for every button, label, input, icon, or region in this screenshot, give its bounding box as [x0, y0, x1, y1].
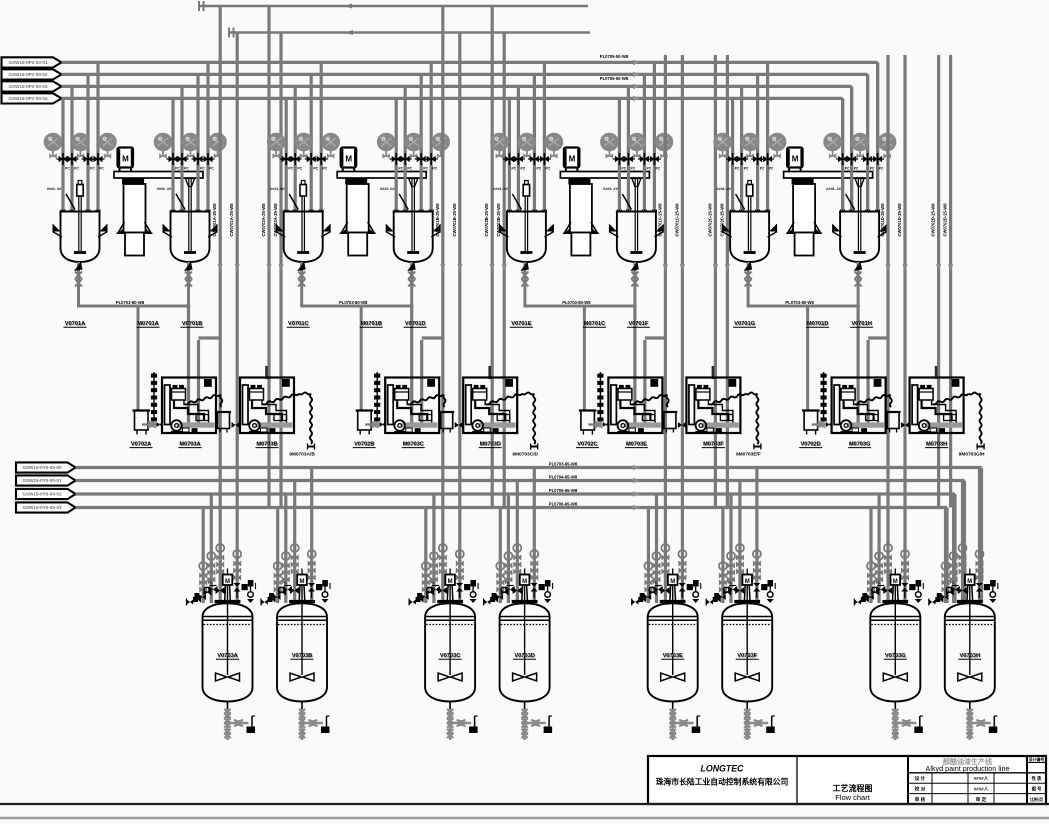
hose 1 [408, 395, 443, 405]
svg-text:V0703C: V0703C [440, 653, 461, 659]
pipe header H1 top [198, 5, 588, 7]
svg-text:V0701E: V0701E [511, 321, 531, 327]
svg-text:V0703G: V0703G [885, 653, 906, 659]
svg-text:M0701D: M0701D [807, 321, 829, 327]
valve HC [232, 422, 236, 428]
svg-text:PL0705-50-W8: PL0705-50-W8 [600, 54, 629, 59]
svg-text:GSW15-0P2-00-03: GSW15-0P2-00-03 [8, 84, 48, 89]
svg-text:####人: ####人 [974, 786, 989, 792]
tag arrow T3 [2, 81, 62, 91]
svg-text:FC: FC [876, 581, 881, 585]
svg-text:M: M [300, 579, 305, 585]
nozzle valve cluster tank V0703E [654, 586, 659, 593]
pipe CW CW0702B-25-W8 [491, 6, 494, 508]
valve HC [455, 422, 459, 428]
svg-text:FC: FC [282, 581, 287, 585]
pipe outlet manifold [77, 305, 190, 308]
wire corner drop line 2 [866, 74, 869, 211]
svg-text:PL0703-80-W8: PL0703-80-W8 [562, 300, 591, 305]
svg-text:PC: PC [99, 167, 104, 171]
svg-text:GSW15-0Y0-00-03: GSW15-0Y0-00-03 [22, 505, 62, 510]
svg-text:CW0701B-25-W8: CW0701B-25-W8 [435, 203, 440, 237]
pipe reactor outlet down [633, 306, 636, 423]
svg-text:珠海市长陆工业自动控制系统有限公司: 珠海市长陆工业自动控制系统有限公司 [656, 777, 789, 787]
svg-text:V0703H: V0703H [960, 653, 981, 659]
svg-text:PL0704-65-W8: PL0704-65-W8 [549, 474, 578, 479]
tag arrow M4 [16, 502, 76, 512]
svg-text:Alkyd paint production line: Alkyd paint production line [926, 764, 1010, 773]
tank vessel V0703C [425, 603, 475, 617]
svg-text:M0703G: M0703G [849, 442, 870, 448]
svg-text:PC: PC [74, 167, 79, 171]
svg-text:###L ##: ###L ## [493, 186, 508, 191]
reactor V0701B [186, 179, 195, 187]
svg-text:比例/页: 比例/页 [1030, 796, 1043, 802]
tank vessel V0703H [945, 603, 995, 617]
svg-text:M: M [122, 155, 129, 164]
svg-text:PC: PC [175, 167, 180, 171]
svg-text:###L ##: ###L ## [270, 186, 285, 191]
pipe tank to skid [588, 423, 608, 425]
svg-text:PC: PC [398, 167, 403, 171]
svg-text:###L ##: ###L ## [47, 186, 62, 191]
svg-text:GSW15-0P2-00-04: GSW15-0P2-00-04 [8, 96, 48, 101]
svg-text:审 核: 审 核 [915, 796, 926, 803]
svg-text:V0703E: V0703E [663, 653, 683, 659]
pipe outlet manifold [300, 305, 413, 308]
wire corner drop [945, 508, 948, 604]
pipe outlet manifold [523, 305, 636, 308]
svg-text:FC: FC [430, 581, 435, 585]
svg-text:####人: ####人 [974, 775, 989, 781]
svg-text:PC: PC [407, 167, 412, 171]
pipe mid header 1 [76, 466, 982, 469]
svg-text:GSW15-0P2-00-02: GSW15-0P2-00-02 [8, 72, 48, 77]
title block [648, 756, 1046, 804]
reactor V0701A [61, 98, 64, 211]
svg-text:PC: PC [512, 167, 517, 171]
svg-text:PC: PC [656, 167, 661, 171]
svg-text:PL0703-80-W8: PL0703-80-W8 [116, 300, 145, 305]
svg-text:PC: PC [744, 167, 749, 171]
svg-text:PC: PC [870, 167, 875, 171]
svg-text:V0701H: V0701H [851, 321, 872, 327]
svg-text:###L ##: ###L ## [716, 186, 731, 191]
bottom outlet tank V0703E [672, 702, 674, 710]
svg-text:M: M [225, 579, 230, 585]
svg-text:M: M [569, 155, 576, 164]
pump skid M0703E [608, 378, 662, 434]
pipe tank to skid [812, 423, 832, 425]
svg-text:CW0701A-25-W8: CW0701A-25-W8 [229, 203, 234, 237]
svg-text:PC: PC [322, 167, 327, 171]
pipe CW CW0701B-25-W8 [441, 6, 444, 603]
svg-text:FC: FC [505, 581, 510, 585]
valve HC [678, 422, 682, 428]
svg-text:PC: PC [209, 167, 214, 171]
agitator motor tank V0703E [672, 569, 674, 575]
svg-text:PC: PC [546, 167, 551, 171]
svg-text:PC: PC [90, 167, 95, 171]
pipe CW CW0701C-25-W8 [664, 55, 667, 603]
pipe CW CW0702C-25-W8 [714, 55, 717, 508]
small tank V0702C [579, 409, 597, 411]
svg-text:GSW15-0Y0-00-01: GSW15-0Y0-00-01 [22, 478, 62, 483]
fitting strip [599, 372, 601, 425]
svg-text:V0702B: V0702B [354, 442, 374, 448]
mid small tank [216, 411, 231, 413]
bottom outlet tank V0703B [301, 702, 303, 710]
svg-text:CW0702B-25-W8: CW0702B-25-W8 [484, 203, 489, 237]
agitator motor tank V0703H [969, 569, 971, 575]
nozzle valve cluster tank V0703G [876, 586, 881, 593]
svg-text:V0701G: V0701G [734, 321, 755, 327]
nozzle valve cluster tank V0703F [728, 586, 733, 593]
bottom outlet tank V0703C [449, 702, 451, 710]
hose 1 [855, 395, 890, 405]
fitting strip [153, 372, 155, 425]
svg-text:FC: FC [208, 581, 213, 585]
svg-text:PC: PC [854, 167, 859, 171]
svg-text:M: M [967, 579, 972, 585]
pipe tank to skid [365, 423, 385, 425]
reactor V0701H [855, 179, 864, 187]
pipe CW CW0702D-25-W8 [937, 55, 940, 508]
bottom outlet tank V0703G [894, 702, 896, 710]
tag arrow T1 [2, 57, 62, 67]
pipe header H2 top [228, 31, 590, 33]
svg-text:V0702A: V0702A [131, 442, 151, 448]
feed pipes tank V0703A [202, 508, 205, 604]
svg-text:M0703C: M0703C [403, 442, 424, 448]
agitator motor tank V0703A [227, 569, 229, 575]
pump skid M0703D [463, 378, 517, 434]
tag arrow M2 [16, 475, 76, 485]
svg-text:PC: PC [200, 167, 205, 171]
tank vessel V0703G [870, 603, 920, 617]
agitator motor tank V0703B [301, 569, 303, 575]
svg-text:V0703D: V0703D [514, 653, 535, 659]
svg-text:CW0701A-25-W8: CW0701A-25-W8 [212, 203, 217, 237]
svg-text:V0702D: V0702D [800, 442, 820, 448]
pipe outlet manifold [747, 305, 860, 308]
svg-text:审 定: 审 定 [976, 796, 987, 803]
svg-text:M: M [745, 579, 750, 585]
wire corner drop [963, 481, 966, 604]
svg-text:图 号: 图 号 [1032, 786, 1042, 793]
hose 2 [486, 394, 522, 405]
svg-text:GSW15-0P2-00-01: GSW15-0P2-00-01 [8, 60, 48, 65]
svg-text:CW0701C-25-W8: CW0701C-25-W8 [674, 203, 679, 237]
svg-text:V0703A: V0703A [217, 653, 238, 659]
pipe tank to skid [142, 423, 162, 425]
svg-text:V0703B: V0703B [292, 653, 313, 659]
border line gray [0, 817, 1049, 820]
fitting strip [823, 372, 825, 425]
feed pipes tank V0703D [499, 508, 502, 604]
tank vessel V0703A [203, 603, 253, 617]
svg-text:PC: PC [423, 167, 428, 171]
svg-text:PC: PC [297, 167, 302, 171]
svg-text:V0701D: V0701D [405, 321, 426, 327]
svg-text:M0703A: M0703A [179, 442, 200, 448]
pipe reactor outlet down [410, 306, 413, 423]
svg-text:PC: PC [288, 167, 293, 171]
svg-text:V0701F: V0701F [628, 321, 648, 327]
svg-text:PL0706-65-W8: PL0706-65-W8 [549, 501, 578, 506]
svg-text:M: M [345, 155, 352, 164]
pump skid M0703C [385, 378, 439, 434]
disperser M0701B [341, 148, 357, 168]
svg-text:###L ##: ###L ## [380, 186, 395, 191]
wire corner drop line 4 [841, 98, 844, 211]
feed pipes tank V0703C [424, 508, 427, 604]
svg-text:Flow chart: Flow chart [835, 793, 871, 802]
svg-text:PC: PC [622, 167, 627, 171]
svg-text:FC: FC [950, 581, 955, 585]
svg-text:V0701B: V0701B [182, 321, 203, 327]
tag arrow M1 [16, 462, 76, 472]
svg-text:PC: PC [735, 167, 740, 171]
svg-text:PL0703-65-W8: PL0703-65-W8 [549, 461, 578, 466]
svg-text:PC: PC [184, 167, 189, 171]
pump skid M0703G [832, 378, 886, 434]
svg-text:PC: PC [879, 167, 884, 171]
disperser M0701C [564, 148, 580, 168]
pump skid M0703A [162, 378, 216, 434]
svg-text:PC: PC [769, 167, 774, 171]
reactor V0701G [731, 98, 734, 211]
svg-text:CW0702D-25-W8: CW0702D-25-W8 [931, 203, 936, 237]
agitator motor tank V0703F [746, 569, 748, 575]
feed pipes tank V0703E [647, 508, 650, 604]
svg-text:PL0703-80-W8: PL0703-80-W8 [339, 300, 368, 305]
svg-text:PC: PC [845, 167, 850, 171]
wire drops from H1/H2 [219, 6, 222, 33]
tank vessel V0703F [722, 603, 772, 617]
reactor V0701D [409, 179, 418, 187]
small tank V0702A [133, 409, 151, 411]
svg-text:FC: FC [728, 581, 733, 585]
svg-text:PC: PC [537, 167, 542, 171]
valve HC [901, 422, 905, 428]
svg-text:9M0703A/B: 9M0703A/B [289, 452, 315, 458]
pipe mid header 2 [76, 479, 965, 482]
pipe main line 1 [62, 61, 878, 64]
svg-text:CW0701B-25-W8: CW0701B-25-W8 [452, 203, 457, 237]
pipe CW CW0702A-25-W8 [267, 6, 270, 508]
svg-text:PC: PC [432, 167, 437, 171]
svg-text:PL0703-80-W8: PL0703-80-W8 [785, 300, 814, 305]
bottom outlet tank V0703D [524, 702, 526, 710]
wire corner drop [953, 494, 956, 603]
svg-text:M: M [448, 579, 453, 585]
tank vessel V0703E [648, 603, 698, 617]
svg-text:M0703B: M0703B [256, 442, 277, 448]
pipe main line 4 [62, 97, 843, 100]
svg-text:###L ##: ###L ## [157, 186, 172, 191]
nozzle valve cluster tank V0703C [431, 586, 436, 593]
feed pipes tank V0703G [869, 508, 872, 604]
svg-text:M: M [893, 579, 898, 585]
tank vessel V0703D [500, 603, 550, 617]
svg-text:M0703D: M0703D [480, 442, 501, 448]
svg-text:M0701A: M0701A [137, 321, 159, 327]
pipe mid header 3 [76, 492, 956, 495]
svg-text:设 计: 设 计 [915, 775, 926, 782]
svg-text:FC: FC [653, 581, 658, 585]
svg-text:设计编号: 设计编号 [1029, 757, 1045, 762]
svg-text:LONGTEC: LONGTEC [700, 764, 744, 774]
agitator motor tank V0703C [449, 569, 451, 575]
tank vessel V0703B [277, 603, 327, 617]
small tank V0702B [356, 409, 374, 411]
mid small tank [662, 411, 677, 413]
svg-text:V0701A: V0701A [65, 321, 86, 327]
reactor V0701F [632, 179, 641, 187]
svg-text:性 质: 性 质 [1032, 775, 1042, 782]
svg-text:9M0703G/H: 9M0703G/H [959, 452, 985, 458]
reactor V0701E [508, 98, 511, 211]
svg-text:M0703H: M0703H [926, 442, 947, 448]
wire corner drop line 1 [876, 62, 879, 211]
svg-text:V0701C: V0701C [288, 321, 309, 327]
pipe main line 2 [62, 73, 868, 76]
svg-text:PC: PC [313, 167, 318, 171]
svg-text:CW0702A-25-W8: CW0702A-25-W8 [261, 203, 266, 237]
svg-text:PC: PC [631, 167, 636, 171]
pipe CW CW0701A-25-W8 [219, 6, 222, 603]
fitting strip [376, 372, 378, 425]
svg-text:PC: PC [760, 167, 765, 171]
svg-text:CW0701D-25-W8: CW0701D-25-W8 [897, 203, 902, 237]
border line black [0, 803, 1049, 805]
svg-text:M: M [522, 579, 527, 585]
hose 1 [185, 395, 220, 405]
svg-text:9M0703E/F: 9M0703E/F [736, 452, 761, 458]
svg-text:M0701B: M0701B [360, 321, 382, 327]
nozzle valve cluster tank V0703D [506, 586, 511, 593]
svg-text:###L ##: ###L ## [826, 186, 841, 191]
right info column [1027, 762, 1046, 764]
disperser M0701D [787, 148, 803, 168]
wire corner drop [980, 468, 983, 604]
nozzle valve cluster tank V0703A [209, 586, 214, 593]
hose 1 [631, 395, 666, 405]
pump skid M0703F [686, 378, 740, 434]
pipe main line 3 [62, 85, 852, 88]
nozzle valve cluster tank V0703B [283, 586, 288, 593]
bottom outlet tank V0703H [969, 702, 971, 710]
svg-text:PC: PC [65, 167, 70, 171]
mid small tank [886, 411, 901, 413]
bottom outlet tank V0703F [746, 702, 748, 710]
tag arrow T2 [2, 69, 62, 79]
svg-text:PC: PC [521, 167, 526, 171]
bottom outlet tank V0703A [227, 702, 229, 710]
disperser M0701A [118, 148, 134, 168]
feed pipes tank V0703F [721, 508, 724, 604]
feed pipes tank V0703B [276, 508, 279, 604]
pump skid M0703H [910, 378, 964, 434]
svg-text:V0702C: V0702C [577, 442, 597, 448]
svg-text:GSW15-0Y0-00-00: GSW15-0Y0-00-00 [22, 465, 62, 470]
svg-text:校 对: 校 对 [915, 786, 926, 793]
agitator motor tank V0703G [894, 569, 896, 575]
svg-text:M0703F: M0703F [703, 442, 724, 448]
svg-text:M: M [792, 155, 799, 164]
svg-text:CW0701D-25-W8: CW0701D-25-W8 [880, 203, 885, 237]
pipe mid header 4 [76, 506, 948, 509]
agitator motor tank V0703D [524, 569, 526, 575]
svg-text:M0701C: M0701C [584, 321, 606, 327]
svg-text:PC: PC [647, 167, 652, 171]
svg-text:V0703F: V0703F [737, 653, 757, 659]
svg-text:CW0702D-25-W8: CW0702D-25-W8 [943, 203, 948, 237]
svg-text:PL0705-65-W8: PL0705-65-W8 [549, 488, 578, 493]
svg-text:CW0701C-25-W8: CW0701C-25-W8 [657, 203, 662, 237]
svg-text:M0703E: M0703E [626, 442, 647, 448]
svg-text:9M0703C/D: 9M0703C/D [512, 452, 538, 458]
svg-text:PL0706-50-W8: PL0706-50-W8 [600, 76, 629, 81]
svg-text:###L ##: ###L ## [603, 186, 618, 191]
feed pipes tank V0703H [944, 508, 947, 604]
hose 2 [263, 394, 299, 405]
pump skid M0703B [240, 378, 294, 434]
tag arrow M3 [16, 489, 76, 499]
approval table [908, 782, 1046, 784]
pipe CW CW0701D-25-W8 [886, 55, 889, 603]
small tank V0702D [802, 409, 820, 411]
wire corner drop line 3 [850, 86, 853, 211]
reactor V0701C [285, 98, 288, 211]
hose 2 [933, 394, 969, 405]
mid small tank [439, 411, 454, 413]
pipe reactor outlet down [856, 306, 859, 423]
svg-text:M: M [670, 579, 675, 585]
svg-text:工艺流程图: 工艺流程图 [833, 783, 873, 793]
pipe reactor outlet down [187, 306, 190, 423]
tag arrow T4 [2, 93, 62, 103]
nozzle valve cluster tank V0703H [951, 586, 956, 593]
svg-text:GSW15-0Y0-00-02: GSW15-0Y0-00-02 [22, 492, 62, 497]
svg-text:CW0702C-25-W8: CW0702C-25-W8 [707, 203, 712, 237]
hose 2 [709, 394, 745, 405]
